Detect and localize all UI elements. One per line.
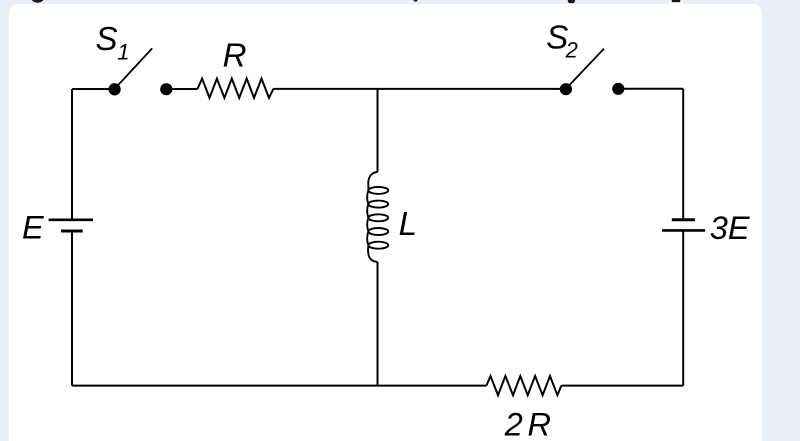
svg-text:3E: 3E: [710, 210, 750, 246]
svg-text:S: S: [96, 20, 118, 57]
resistor 2R: [487, 376, 562, 395]
svg-text:2: 2: [565, 38, 578, 63]
wire: top-left horizontal from corner to switch S1: [72, 88, 110, 90]
svg-text:E: E: [22, 210, 44, 246]
switch S2 right contact dot: [612, 83, 624, 95]
battery E: [49, 220, 93, 231]
switch S1 left contact dot: [108, 83, 120, 95]
switch S1 right contact dot: [160, 83, 172, 95]
svg-text:R: R: [528, 406, 551, 441]
cropped text fragment (dot): [414, 0, 418, 2]
svg-text:2: 2: [504, 406, 523, 441]
wire: bottom horizontal right of resistor 2R: [561, 385, 683, 387]
cropped text fragment (bar): [672, 0, 680, 2]
cropped icon fragment top-left: [31, 0, 45, 3]
wire: right vertical (battery 3E bottom lead): [682, 230, 684, 385]
wire: bottom horizontal left of resistor 2R: [72, 385, 487, 387]
wire: middle vertical bottom (inductor to bottom node): [377, 262, 379, 386]
switch S1 blade: [118, 48, 152, 85]
svg-text:R: R: [223, 37, 247, 74]
wire: right vertical (battery 3E top lead): [682, 89, 684, 220]
wire: left vertical (battery E bottom lead): [71, 231, 73, 386]
cropped text highlight patch: [669, 2, 683, 7]
svg-text:1: 1: [117, 40, 129, 65]
resistor R: [198, 79, 274, 98]
wire: top horizontal between resistor R and switch S2: [273, 88, 566, 90]
wire: left vertical (battery E top lead): [71, 89, 73, 220]
switch S2 left contact dot: [560, 83, 572, 95]
switch S2 blade: [570, 49, 605, 85]
wire: top horizontal from right corner to switch S2: [618, 88, 683, 90]
wire: middle vertical top (node to inductor): [377, 89, 379, 172]
svg-text:L: L: [399, 205, 417, 242]
cropped text fragment (descender): [568, 0, 575, 3]
battery 3E: [662, 220, 705, 231]
inductor L: [367, 172, 388, 262]
wire: between switch S1 and resistor R: [166, 88, 197, 90]
